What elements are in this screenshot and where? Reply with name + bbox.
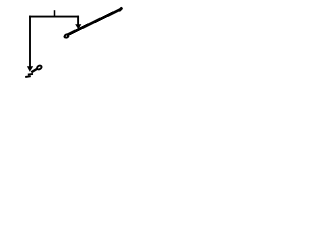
wire right vertical <box>77 16 79 26</box>
small blade upper bar <box>28 73 33 76</box>
small diagonal blade <box>31 69 37 73</box>
arrowhead right (points down onto long blade) <box>75 24 81 29</box>
long diagonal blade <box>67 9 121 35</box>
long blade tail <box>64 36 66 37</box>
small blade loop <box>36 65 42 70</box>
wire left vertical <box>29 16 31 67</box>
tick stub on top wire <box>54 10 56 16</box>
small blade lower bar <box>25 75 31 78</box>
long blade tip blob <box>120 9 122 11</box>
arrowhead bottom-left (points down onto small blade) <box>27 66 33 72</box>
long blade hinge loop <box>64 34 69 38</box>
wire top horizontal <box>29 16 79 18</box>
